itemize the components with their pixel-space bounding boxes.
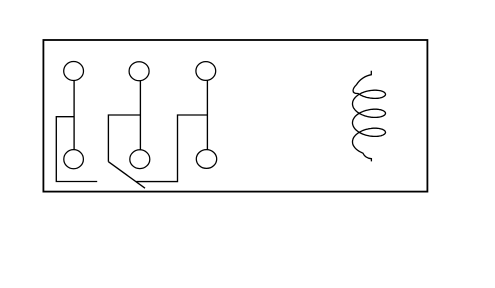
wire pole2 bracket (108, 115, 140, 162)
terminal circle pole3 top (196, 62, 216, 81)
coil L1 (353, 71, 386, 162)
wire pole3 bracket (136, 115, 207, 182)
wire pole2 vertical (139, 81, 141, 150)
wire pole3 vertical (206, 80, 208, 149)
switch blade diagonal (108, 162, 145, 189)
terminal circle pole2 bottom (130, 150, 150, 169)
wire pole1 bracket (56, 117, 97, 182)
terminal circle pole3 bottom (196, 150, 216, 169)
terminal circle pole1 top (64, 62, 84, 81)
wire pole1 vertical (73, 81, 75, 150)
terminal circle pole1 bottom (64, 150, 84, 169)
relay case outline (43, 40, 427, 192)
terminal circle pole2 top (129, 62, 149, 81)
